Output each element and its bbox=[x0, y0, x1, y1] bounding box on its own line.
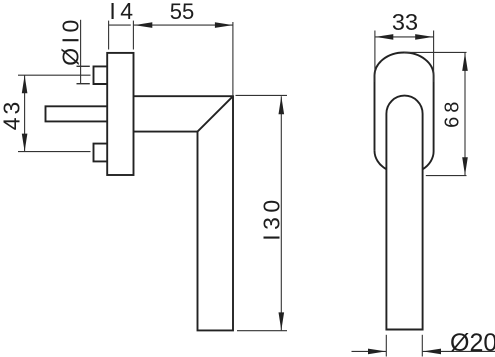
svg-text:68: 68 bbox=[441, 98, 463, 128]
svg-text:55: 55 bbox=[170, 0, 194, 24]
svg-text:I4: I4 bbox=[109, 0, 137, 24]
svg-text:I30: I30 bbox=[259, 195, 285, 240]
svg-text:ØI0: ØI0 bbox=[58, 15, 84, 66]
svg-text:43: 43 bbox=[0, 99, 25, 131]
svg-text:Ø20: Ø20 bbox=[450, 329, 495, 357]
svg-text:33: 33 bbox=[392, 9, 418, 35]
